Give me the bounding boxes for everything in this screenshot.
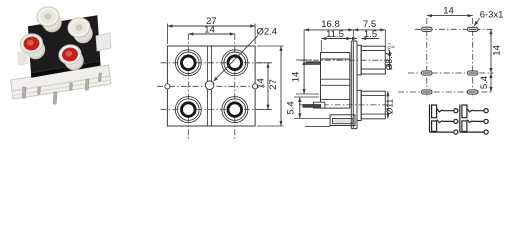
svg-text:14: 14 bbox=[204, 25, 215, 36]
svg-text:6-3x1: 6-3x1 bbox=[480, 10, 504, 21]
svg-text:1.5: 1.5 bbox=[364, 29, 377, 40]
svg-text:11.5: 11.5 bbox=[326, 29, 344, 40]
svg-text:14: 14 bbox=[291, 72, 302, 83]
svg-text:Ø8.4: Ø8.4 bbox=[384, 52, 394, 71]
svg-text:27: 27 bbox=[268, 79, 279, 90]
svg-text:14: 14 bbox=[443, 5, 454, 16]
svg-text:5.4: 5.4 bbox=[479, 76, 490, 89]
svg-text:14: 14 bbox=[255, 78, 266, 89]
svg-text:5.4: 5.4 bbox=[286, 101, 297, 114]
svg-text:14: 14 bbox=[491, 45, 502, 56]
svg-text:Ø11: Ø11 bbox=[385, 99, 395, 115]
svg-text:Ø2.4: Ø2.4 bbox=[257, 27, 278, 38]
